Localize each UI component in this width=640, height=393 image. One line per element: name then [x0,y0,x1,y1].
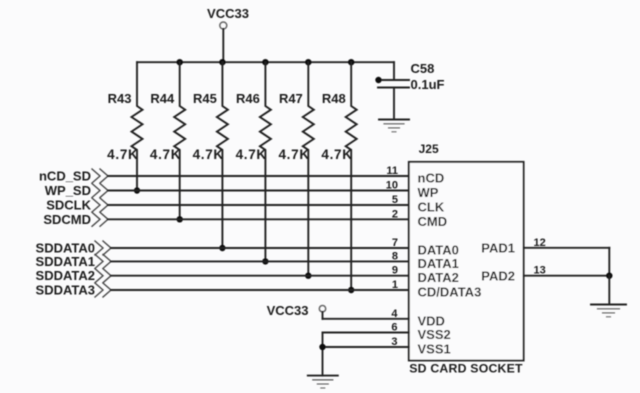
svg-text:4.7K: 4.7K [193,147,224,162]
svg-text:R45: R45 [193,91,217,106]
node SDDATA1 (off-page connector) [36,254,111,269]
capacitor C58 [375,61,444,120]
node SDCMD (off-page connector) [43,212,108,227]
pin 13 PAD2 [524,275,610,277]
svg-text:nCD_SD: nCD_SD [39,169,91,184]
node R45-DATA0 [219,245,225,251]
resistor R46 [236,62,271,261]
svg-text:CD/DATA3: CD/DATA3 [418,285,482,300]
node nCD_SD (off-page connector) [39,169,108,184]
svg-text:SDDATA3: SDDATA3 [36,283,95,298]
svg-text:R43: R43 [108,91,132,106]
svg-text:PAD2: PAD2 [481,268,515,283]
svg-text:J25: J25 [419,142,439,156]
pin 4 VDD [323,318,409,320]
ground (PAD) [591,305,626,317]
node SDDATA3 (off-page connector) [36,283,111,298]
svg-text:CLK: CLK [418,200,445,215]
connector J25 (SD card socket body) [409,142,524,376]
svg-text:R48: R48 [322,91,346,106]
node SDDATA0 (off-page connector) [36,241,111,256]
wire WP_SD to pin 10 [108,190,409,192]
node R48-DATA3 [348,287,354,293]
svg-text:6: 6 [391,322,397,334]
svg-text:WP_SD: WP_SD [45,183,91,198]
power symbol VCC33 (top) [207,6,249,62]
svg-text:nCD: nCD [418,171,445,186]
svg-text:CMD: CMD [418,214,448,229]
svg-text:SDDATA2: SDDATA2 [36,268,95,283]
svg-text:1: 1 [392,279,398,291]
node R47-DATA2 [305,273,311,279]
resistor R48 [321,62,356,290]
wire SDDATA1 to pin 8 [111,260,409,262]
svg-text:WP: WP [418,185,439,200]
svg-text:R46: R46 [236,91,260,106]
svg-text:4.7K: 4.7K [321,147,352,162]
svg-text:4: 4 [391,308,398,320]
pin 3 VSS1 [323,346,409,348]
svg-text:SDCMD: SDCMD [43,212,91,227]
ground (C58) [379,120,409,132]
svg-text:12: 12 [534,237,546,249]
node R43-WP [134,187,140,193]
wire VSS to ground [322,333,324,376]
wire SDCMD to pin 2 [108,218,409,220]
svg-text:VCC33: VCC33 [267,303,309,318]
node rail-R46 [262,59,268,65]
pin 6 VSS2 [323,332,409,334]
svg-text:2: 2 [392,208,398,220]
resistor R44 [150,62,185,219]
node SDCLK (off-page connector) [46,198,108,213]
node rail-R45 [219,59,225,65]
svg-text:SDCLK: SDCLK [46,198,91,213]
ground (VSS) [308,376,338,388]
wire SDDATA3 to pin 1 [111,289,409,291]
node rail-R47 [305,59,311,65]
svg-text:3: 3 [391,336,397,348]
resistor R45 [193,62,228,248]
node R46-DATA1 [262,258,268,264]
resistor R47 [278,62,313,276]
svg-text:SDDATA1: SDDATA1 [36,254,95,269]
svg-text:5: 5 [392,194,398,206]
node rail-R48 [348,59,354,65]
svg-text:4.7K: 4.7K [107,147,138,162]
wire nCD_SD to pin 11 [108,175,409,177]
resistor R43 [107,62,142,190]
svg-text:VCC33: VCC33 [207,6,249,21]
svg-text:10: 10 [386,180,398,192]
wire SDCLK to pin 5 [108,204,409,206]
wire VCC33 rail [137,61,394,63]
svg-text:4.7K: 4.7K [278,147,309,162]
wire PAD1 down to PAD2 net [608,248,610,276]
svg-text:PAD1: PAD1 [481,241,515,256]
svg-text:DATA1: DATA1 [418,256,459,271]
svg-text:0.1uF: 0.1uF [411,77,445,92]
node VSS junction [319,344,325,350]
node rail-R44 [177,59,183,65]
node SDDATA2 (off-page connector) [36,268,111,283]
svg-text:9: 9 [392,265,398,277]
wire SDDATA2 to pin 9 [111,275,409,277]
svg-text:11: 11 [386,165,398,177]
svg-text:4.7K: 4.7K [236,147,267,162]
svg-text:13: 13 [534,265,546,277]
pin 12 PAD1 [524,247,610,249]
svg-text:4.7K: 4.7K [150,147,181,162]
wire SDDATA0 to pin 7 [111,247,409,249]
svg-text:C58: C58 [411,61,435,76]
power symbol VCC33 (bottom) [267,303,326,319]
node PAD junction [606,273,612,279]
node R44-CMD [177,216,183,222]
wire PAD net to ground [608,276,610,305]
svg-text:SD CARD SOCKET: SD CARD SOCKET [409,362,523,376]
svg-text:VSS1: VSS1 [418,342,451,357]
svg-text:R47: R47 [279,91,303,106]
node WP_SD (off-page connector) [45,183,108,198]
svg-text:8: 8 [392,250,398,262]
svg-text:VSS2: VSS2 [418,327,451,342]
svg-text:R44: R44 [150,91,175,106]
svg-text:DATA2: DATA2 [418,270,459,285]
svg-text:7: 7 [392,237,398,249]
